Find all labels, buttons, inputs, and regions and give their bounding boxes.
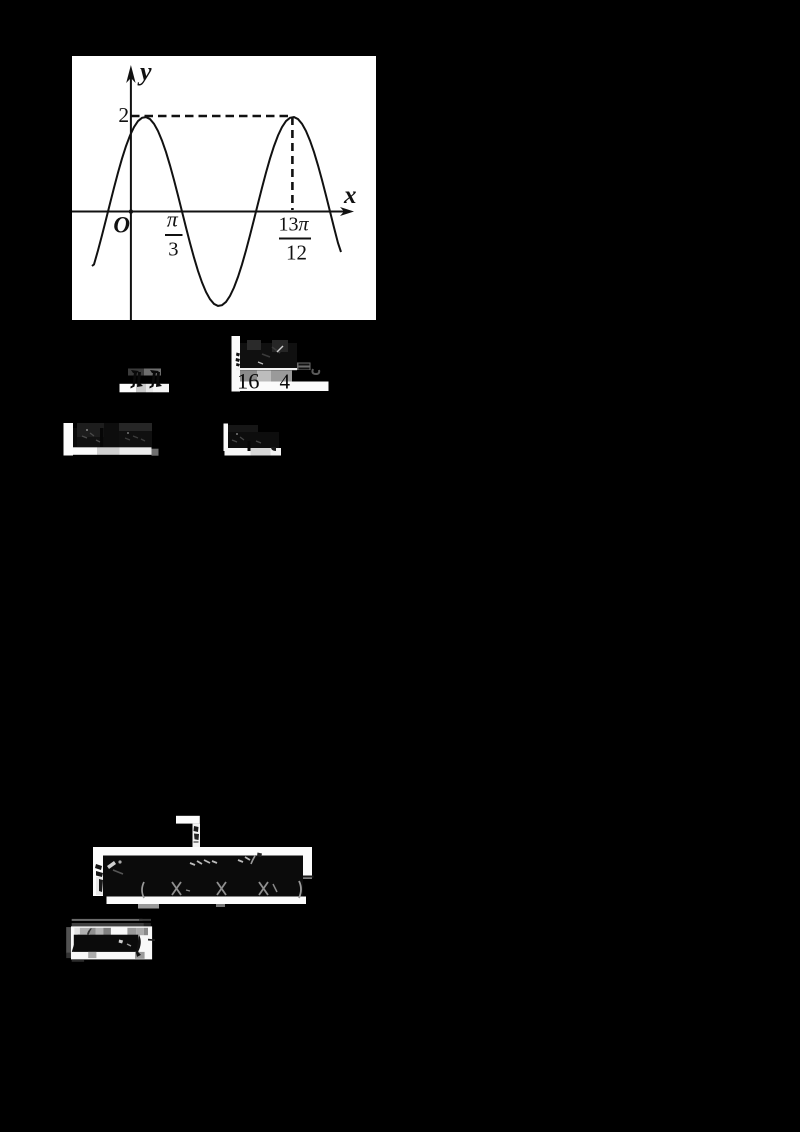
svg-text:y: y	[137, 57, 152, 86]
sine curve	[92, 117, 341, 306]
fragment F5 (small T fraction)	[176, 816, 200, 850]
svg-text:13π: 13π	[279, 214, 310, 236]
y-axis arrowhead	[126, 65, 135, 83]
svg-text:16: 16	[237, 369, 260, 394]
dashed line horizontal y=2	[131, 115, 292, 118]
fragment F7 (boxed f(x)= answer)	[66, 919, 155, 962]
x-axis arrowhead	[340, 207, 354, 216]
fragment F4 (4sin row)	[224, 424, 282, 456]
dark marks on white edges	[95, 864, 103, 877]
fragment F6 (long boxed expression)	[93, 847, 314, 909]
origin dot	[129, 209, 133, 213]
faint glyphs on dark block	[107, 861, 116, 869]
svg-text:12: 12	[286, 241, 307, 265]
x-axis	[72, 211, 346, 213]
svg-text:3: 3	[168, 238, 178, 260]
y-axis	[130, 76, 132, 320]
dashed line vertical x=13pi/12	[291, 117, 294, 210]
fragment F2 (fraction 16 block)	[232, 336, 329, 394]
svg-text:O: O	[113, 212, 130, 237]
fragment F3 (bracket pi/3 row)	[64, 423, 159, 456]
svg-text:x: x	[343, 182, 357, 209]
svg-text:2: 2	[118, 103, 129, 127]
graph figure white panel	[72, 56, 376, 320]
fragment F1 (7pi/4 bits)	[120, 369, 170, 393]
svg-text:4: 4	[280, 370, 291, 394]
svg-text:π: π	[167, 207, 179, 232]
